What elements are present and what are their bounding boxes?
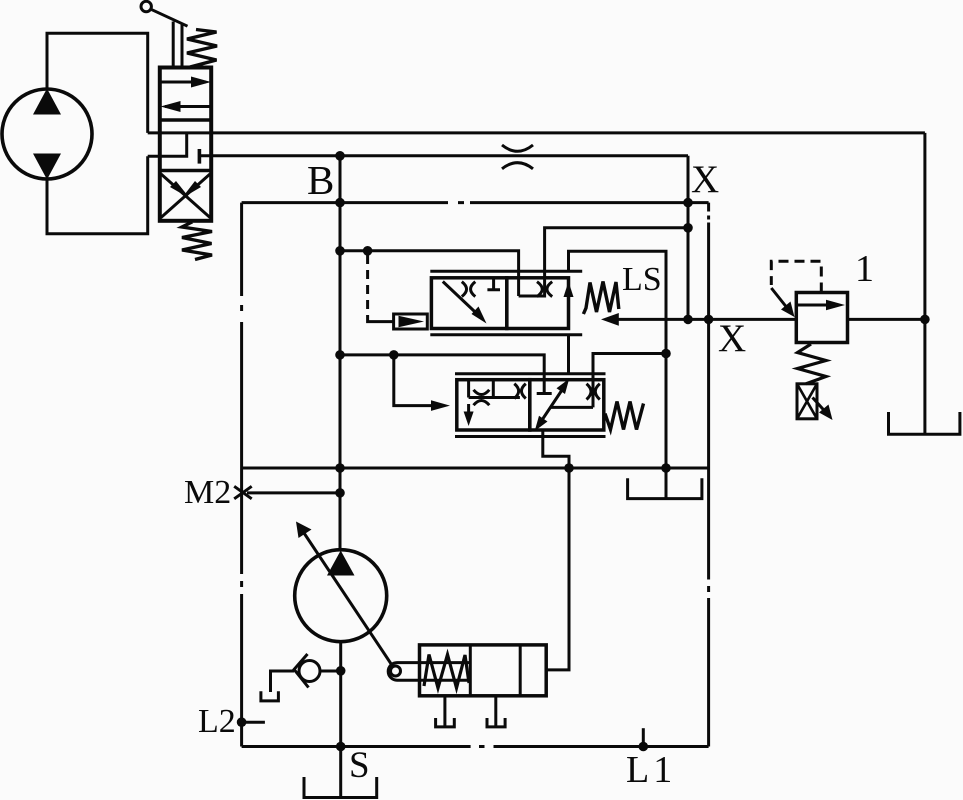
flow valve FC2 infinite-position line (top) — [455, 372, 606, 375]
FC2 right box — [530, 380, 604, 430]
CP1 left box — [431, 278, 506, 329]
node drain vertical at y=468 — [661, 463, 671, 473]
svg-text:S: S — [349, 745, 370, 786]
tank top right — [889, 412, 960, 434]
V1 blocked port T-bar — [198, 149, 202, 164]
wire B to FC2 blocked port (y=354.9) — [340, 355, 544, 394]
wire B to compensator port (y=250.8) — [340, 251, 519, 296]
FC2 right port wire over to drain vertical — [593, 354, 666, 408]
wire pump suction — [339, 642, 342, 797]
FC2 variable arrow (double head) — [541, 389, 563, 422]
FC2 spring — [605, 402, 644, 430]
node LS / X-drop — [683, 315, 693, 325]
FC2 left box orifice (horizontal) — [474, 390, 490, 395]
enclosure boundary (chain line) top — [242, 201, 709, 204]
check valve drain to tank — [271, 671, 295, 692]
compensator CP1 infinite-position lines (top) — [430, 270, 582, 273]
FC2 infinite-position line (bottom) — [455, 435, 606, 438]
svg-text:X: X — [718, 317, 746, 360]
enclosure boundary right — [707, 203, 710, 747]
spring bottom of valve V1 — [182, 222, 212, 260]
small drain tank — [261, 691, 279, 701]
L1 port stub — [642, 728, 645, 746]
node pilot tap — [363, 246, 373, 256]
line B vertical — [339, 156, 342, 551]
svg-text:X: X — [691, 158, 719, 201]
CP1 left box orifice — [462, 282, 467, 297]
servo rod — [397, 663, 470, 681]
RV1 internal arrow — [798, 304, 838, 307]
orifice on line X — [502, 145, 533, 151]
node FC2 pilot tap — [389, 350, 399, 360]
M2 test point — [234, 486, 252, 499]
CP1 left box variable arrow — [443, 282, 482, 319]
servo pivot — [391, 666, 401, 676]
orifice in CP1 right box — [537, 282, 542, 297]
RV1 remote pilot (dashed) — [771, 261, 821, 292]
CP1 right box — [507, 278, 569, 329]
suction tank S — [304, 777, 377, 798]
FC2 blocked port T-bar — [537, 392, 552, 395]
relief valve RV1 body — [796, 293, 847, 343]
wire X corner down — [687, 156, 690, 320]
FC2 right port inner stub — [551, 406, 594, 409]
variable pump P1 — [295, 550, 387, 642]
L2 port — [237, 717, 247, 727]
spring top of valve V1 — [187, 30, 217, 68]
motor lower triangle — [33, 154, 61, 180]
wire CP1 to FC2 (x=568.5) — [567, 335, 570, 374]
svg-text:L1: L1 — [626, 749, 676, 791]
node servo line at y=468 — [564, 463, 574, 473]
RV1 outlet wire — [848, 318, 925, 321]
RV1 solenoid arrow — [813, 398, 827, 413]
lever knob of valve V1 — [141, 1, 151, 11]
node M2 on line B — [335, 488, 345, 498]
svg-text:L2: L2 — [198, 703, 236, 740]
tank below drain line — [665, 468, 668, 498]
CP1 right box up-arrow on right edge — [567, 288, 570, 303]
wire motor top loop — [47, 33, 148, 133]
check valve CV1 — [299, 661, 320, 682]
node RV1 outlet — [920, 315, 930, 325]
servo drain stubs and tanks — [436, 696, 455, 727]
node X at boundary — [683, 198, 693, 208]
common drain line y=468 — [242, 467, 709, 470]
RV1 pilot arrow — [771, 288, 788, 309]
FC2 bottom port wire to servo line — [543, 430, 569, 468]
wire motor bottom loop — [47, 156, 148, 234]
V1 arrow right (top position) — [160, 81, 206, 84]
pilot box of compensator CP1 — [394, 314, 428, 329]
svg-text:LS: LS — [622, 261, 662, 298]
wire U-port orifice path to X bridge — [519, 228, 688, 296]
lever arm — [151, 9, 188, 26]
node check valve tee — [336, 666, 346, 676]
FC2 left box partition — [469, 380, 520, 398]
CP1 left box blocked port — [487, 278, 500, 290]
node B y=354.9 — [335, 350, 345, 360]
servo control port wire — [546, 468, 569, 670]
node at bottom boundary — [336, 742, 346, 752]
servo cylinder SC — [420, 645, 547, 696]
node on line X / line B junction — [335, 151, 345, 161]
node LS at boundary — [704, 315, 714, 325]
FC2 left box down arrow — [467, 404, 470, 416]
lever stem — [172, 22, 175, 68]
V1 divider y=120 — [160, 118, 211, 121]
V1 closed position X symbol — [161, 174, 210, 218]
right side vertical drop — [923, 133, 926, 435]
svg-text:B: B — [307, 157, 334, 203]
servo spring — [424, 655, 469, 689]
LS pilot arrow into CP1 — [601, 313, 619, 326]
node B at y=468 — [335, 463, 345, 473]
FC2 left box — [457, 380, 530, 430]
FC2 pilot line with arrow — [394, 355, 433, 406]
RV1 spring — [798, 344, 827, 384]
motor upper triangle — [33, 89, 61, 115]
LS line to relief valve — [607, 318, 796, 321]
long line X (valve V1 blocked port to X node) — [199, 154, 688, 157]
RV1 solenoid box — [797, 384, 817, 419]
CP1 spring — [583, 282, 618, 315]
FC2 left box vertical orifice — [514, 384, 518, 399]
pilot line (dashed) to compensator CP1 — [366, 255, 369, 316]
node drain vertical at y=353.5 — [661, 349, 671, 359]
node B y=250.8 — [335, 246, 345, 256]
wire motor bottom port into valve V1 — [148, 133, 187, 156]
long line P (valve V1 to top right corner) — [148, 131, 925, 134]
enclosure boundary bottom — [242, 745, 709, 748]
node X at bridge line — [683, 223, 693, 233]
wire CP1 right edge up and over to drain vertical — [569, 251, 667, 468]
pump variable arrow — [300, 527, 392, 665]
V1 arrow left (top position) — [165, 105, 211, 108]
hydraulic motor M (circle) — [2, 89, 92, 179]
svg-text:1: 1 — [855, 248, 874, 290]
V1 divider y=170.5 — [160, 169, 211, 172]
enclosure boundary left — [240, 203, 243, 747]
svg-text:M2: M2 — [184, 474, 231, 511]
pump outlet triangle — [327, 551, 355, 576]
CP1 infinite-position line (bottom) — [430, 333, 582, 336]
node B at boundary — [335, 198, 345, 208]
FC2 right port orifice — [587, 384, 592, 400]
lever valve V1 body — [160, 68, 211, 221]
